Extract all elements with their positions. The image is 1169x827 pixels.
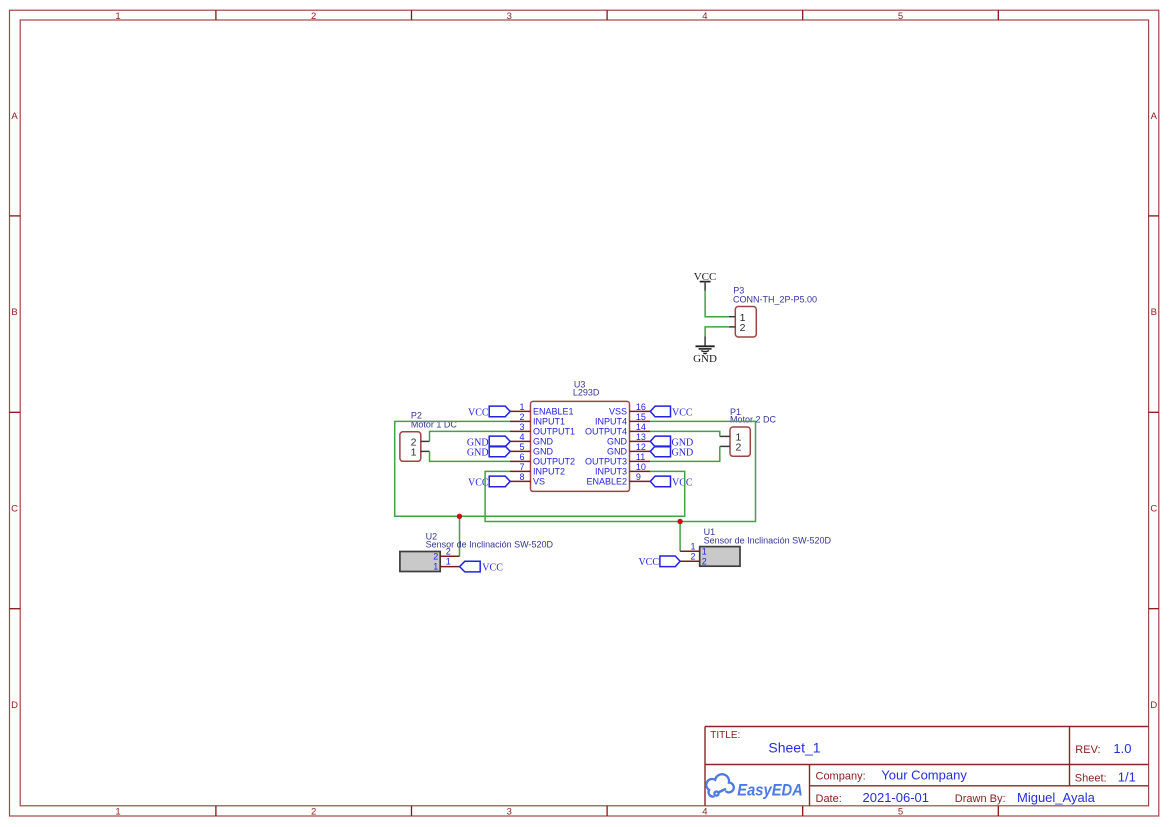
connector P1 body	[730, 427, 750, 456]
svg-text:2: 2	[446, 546, 451, 556]
title block outline	[705, 727, 1149, 806]
wire OUTPUT1 to P2 pin 2	[430, 431, 511, 441]
svg-text:GND: GND	[533, 447, 554, 457]
svg-text:VS: VS	[533, 477, 545, 487]
svg-text:C: C	[1150, 504, 1157, 515]
netflag VCC pin8	[468, 476, 510, 488]
sensor U2 body	[400, 552, 440, 572]
svg-text:Motor 2 DC: Motor 2 DC	[730, 414, 777, 424]
frame ruler ticks top	[216, 10, 998, 20]
svg-text:VCC: VCC	[638, 557, 659, 568]
svg-text:2: 2	[736, 441, 742, 453]
svg-text:9: 9	[636, 472, 641, 482]
connector P1 pin 1 stub	[720, 435, 730, 437]
connector P3 body	[735, 307, 756, 338]
netflag GND pin4	[467, 436, 510, 448]
frame ruler ticks left	[10, 216, 21, 609]
svg-text:13: 13	[636, 432, 646, 442]
svg-text:B: B	[1151, 307, 1157, 318]
svg-text:3: 3	[507, 11, 512, 22]
wire net INPUT2-INPUT4	[485, 421, 755, 521]
ground symbol bars	[696, 346, 715, 353]
svg-text:2021-06-01: 2021-06-01	[863, 790, 930, 805]
IC U3 body	[531, 401, 630, 491]
frame ruler numbers top	[115, 11, 903, 22]
svg-text:D: D	[11, 700, 18, 711]
netflag GND pin5	[467, 446, 510, 458]
svg-text:15: 15	[636, 412, 646, 422]
svg-text:2: 2	[702, 557, 707, 567]
svg-text:VCC: VCC	[482, 563, 503, 574]
wire OUTPUT3 to P1 pin 2	[650, 446, 720, 461]
svg-text:2: 2	[433, 551, 438, 561]
U3 left pin numbers	[519, 402, 524, 482]
wire junction to U2	[459, 516, 461, 556]
svg-text:Sheet_1: Sheet_1	[768, 740, 820, 756]
svg-text:1: 1	[115, 11, 120, 22]
svg-text:10: 10	[636, 462, 646, 472]
U3 right pin names	[585, 407, 628, 487]
wire P3 pin 2 to GND	[705, 327, 729, 337]
svg-text:ENABLE2: ENABLE2	[586, 477, 627, 487]
svg-text:2: 2	[740, 322, 746, 334]
svg-text:1: 1	[433, 562, 438, 572]
svg-text:GND: GND	[607, 447, 628, 457]
svg-text:1: 1	[411, 447, 417, 459]
frame ruler letters right	[1150, 111, 1157, 711]
svg-text:INPUT1: INPUT1	[533, 417, 565, 427]
connector P2 pin 2 stub	[421, 440, 430, 442]
svg-text:INPUT4: INPUT4	[595, 417, 627, 427]
power flag VCC bar	[700, 281, 711, 283]
svg-text:A: A	[1151, 111, 1158, 122]
connector P1 pin 2 stub	[720, 445, 730, 447]
wire OUTPUT4 to P1 pin 1	[650, 431, 720, 436]
svg-text:5: 5	[898, 11, 903, 22]
svg-text:GND: GND	[672, 447, 694, 458]
svg-text:A: A	[11, 111, 18, 122]
svg-text:CONN-TH_2P-P5.00: CONN-TH_2P-P5.00	[733, 294, 817, 304]
U2 pin 2 stub	[440, 555, 459, 557]
svg-text:INPUT2: INPUT2	[533, 467, 565, 477]
svg-text:VSS: VSS	[609, 407, 627, 417]
wire junction to U1	[679, 522, 681, 552]
svg-text:1: 1	[702, 547, 707, 557]
svg-text:C: C	[11, 504, 18, 515]
U1 pin 1 stub	[680, 550, 700, 552]
connector P2 pin 1 stub	[421, 450, 430, 452]
svg-text:VCC: VCC	[672, 477, 693, 488]
frame ruler ticks right	[1149, 216, 1159, 609]
svg-text:Drawn By:: Drawn By:	[955, 793, 1006, 805]
svg-text:1.0: 1.0	[1113, 741, 1131, 756]
svg-text:2: 2	[311, 807, 316, 818]
wire net INPUT1-INPUT3	[395, 421, 685, 516]
svg-text:1: 1	[115, 807, 120, 818]
frame ruler ticks bottom	[216, 806, 998, 816]
connector P2 body	[400, 432, 421, 462]
svg-text:OUTPUT2: OUTPUT2	[533, 457, 575, 467]
svg-text:7: 7	[519, 462, 524, 472]
svg-text:REV:: REV:	[1075, 744, 1100, 756]
svg-text:16: 16	[636, 402, 646, 412]
svg-text:5: 5	[898, 807, 903, 818]
power flag VCC stub	[704, 282, 706, 291]
svg-text:INPUT3: INPUT3	[595, 467, 627, 477]
svg-text:Sheet:: Sheet:	[1075, 773, 1107, 785]
svg-text:2: 2	[311, 11, 316, 22]
svg-text:8: 8	[519, 472, 524, 482]
netflag GND pin13	[650, 436, 693, 448]
svg-text:2: 2	[690, 552, 695, 562]
svg-text:D: D	[1150, 700, 1157, 711]
svg-text:GND: GND	[533, 437, 554, 447]
svg-text:GND: GND	[693, 353, 717, 365]
svg-text:Your Company: Your Company	[881, 768, 967, 783]
U3 right pin stubs 9-16	[630, 411, 651, 481]
EasyEDA logo node circle	[714, 792, 718, 796]
svg-text:4: 4	[519, 432, 524, 442]
junction dot U2 net	[457, 514, 462, 519]
svg-text:12: 12	[636, 442, 646, 452]
netflag VCC pin1	[468, 406, 510, 418]
svg-text:OUTPUT1: OUTPUT1	[533, 427, 575, 437]
svg-text:6: 6	[519, 452, 524, 462]
svg-text:OUTPUT3: OUTPUT3	[585, 457, 627, 467]
svg-text:Miguel_Ayala: Miguel_Ayala	[1017, 790, 1096, 805]
ground symbol stub	[704, 337, 706, 347]
connector P3 pin 2 stub	[729, 326, 735, 328]
U3 left pin stubs 1-8	[510, 411, 531, 481]
svg-text:2: 2	[519, 412, 524, 422]
svg-text:4: 4	[702, 11, 707, 22]
svg-text:1: 1	[690, 542, 695, 552]
svg-text:GND: GND	[467, 447, 489, 458]
svg-text:1: 1	[519, 402, 524, 412]
frame ruler numbers bottom	[115, 807, 903, 818]
netflag GND pin12	[650, 446, 693, 458]
svg-text:11: 11	[636, 452, 645, 462]
netflag VCC pin9	[650, 476, 693, 488]
svg-text:L293D: L293D	[573, 388, 600, 398]
svg-text:VCC: VCC	[672, 407, 693, 418]
netflag VCC pin16	[650, 406, 693, 418]
U2 pin 1 stub	[440, 566, 459, 568]
svg-text:Sensor de Inclinación SW-520D: Sensor de Inclinación SW-520D	[704, 535, 832, 545]
svg-text:B: B	[11, 307, 17, 318]
svg-text:14: 14	[636, 422, 646, 432]
svg-text:ENABLE1: ENABLE1	[533, 407, 574, 417]
svg-text:GND: GND	[607, 437, 628, 447]
netflag VCC U1 pin2	[638, 556, 680, 568]
svg-text:EasyEDA: EasyEDA	[737, 780, 803, 799]
U3 left pin names	[533, 407, 575, 487]
EasyEDA logo cloud	[706, 774, 734, 796]
wire VCC to P3 pin 1	[705, 291, 729, 317]
wire OUTPUT2 to P2 pin 1	[430, 451, 511, 461]
frame ruler letters left	[11, 111, 18, 711]
svg-text:Date:: Date:	[816, 793, 842, 805]
svg-text:Sensor de Inclinación SW-520D: Sensor de Inclinación SW-520D	[426, 540, 554, 550]
svg-text:OUTPUT4: OUTPUT4	[585, 427, 627, 437]
sensor U1 body	[700, 547, 740, 567]
svg-text:4: 4	[702, 807, 707, 818]
svg-text:3: 3	[507, 807, 512, 818]
svg-text:VCC: VCC	[468, 407, 489, 418]
svg-text:1: 1	[446, 557, 451, 567]
svg-text:TITLE:: TITLE:	[710, 730, 740, 741]
svg-text:5: 5	[519, 442, 524, 452]
svg-text:3: 3	[519, 422, 524, 432]
svg-text:Company:: Company:	[816, 771, 866, 783]
connector P3 pin 1 stub	[729, 316, 735, 318]
netflag VCC U2 pin1	[460, 561, 504, 573]
U1 pin 2 stub	[680, 560, 700, 562]
U3 right pin numbers	[636, 402, 646, 482]
svg-text:1/1: 1/1	[1118, 770, 1136, 785]
junction dot U1 net	[677, 519, 682, 524]
